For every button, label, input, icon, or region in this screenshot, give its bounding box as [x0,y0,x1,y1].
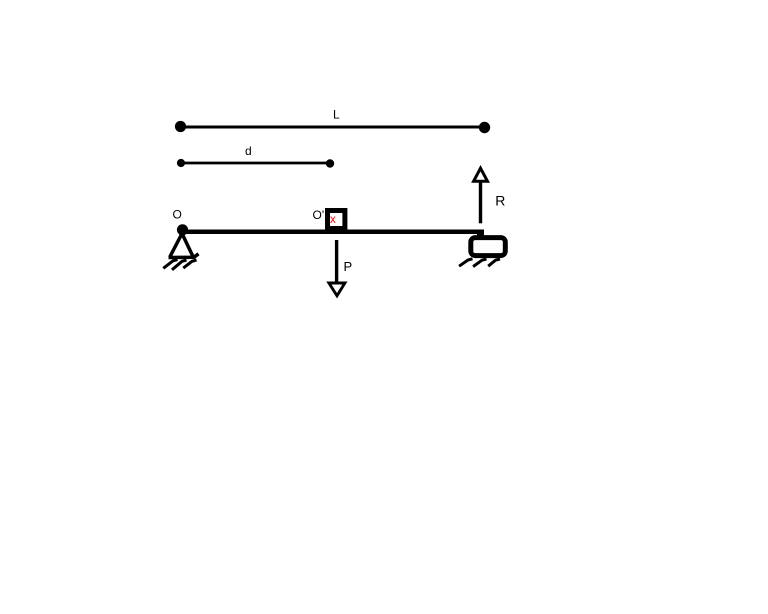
roller support (rounded block) [471,238,506,256]
svg-text:x: x [330,214,336,226]
reaction R arrowhead (open, up) [474,168,488,181]
svg-text:P: P [344,259,353,274]
svg-text:L: L [333,108,340,122]
beam (member O to right support) [181,230,484,235]
node O (pin) dot [177,224,188,235]
hatch 1 under roller [459,259,472,266]
node dot right end of d [326,159,334,167]
node dot right end of L [479,122,490,133]
svg-text:R: R [495,193,505,209]
beam end step into roller [477,230,484,237]
hatch 2 under roller [473,259,486,267]
hatch 3 under pin support [183,260,196,268]
svg-text:d: d [245,144,252,158]
pin support at O (triangle) [169,235,199,258]
node dot left end of L [175,121,186,132]
hatch 3 under roller [488,259,500,266]
force P arrow stem [335,240,338,284]
slider block (square) at O' [328,211,345,229]
svg-text:O': O' [313,208,325,222]
force P arrowhead (open, down) [329,283,345,296]
node dot left end of d [177,159,185,167]
dimension line d [182,162,329,165]
dimension line L [182,126,483,129]
hatch 2 under pin support [172,260,187,270]
svg-text:O: O [173,208,182,222]
reaction R arrow stem [479,181,482,223]
hatch 1 under pin support [163,260,177,269]
